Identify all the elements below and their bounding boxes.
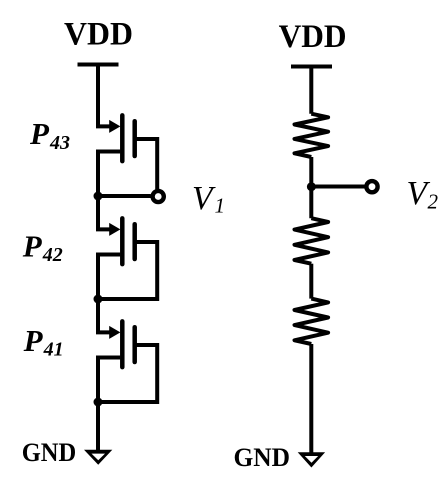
svg-text:VDD: VDD [64, 17, 133, 53]
svg-text:GND: GND [234, 442, 291, 472]
svg-text:43: 43 [49, 132, 70, 154]
svg-text:GND: GND [22, 437, 76, 467]
svg-text:1: 1 [215, 194, 226, 218]
svg-text:V: V [192, 180, 216, 217]
svg-text:41: 41 [43, 339, 64, 361]
svg-text:P: P [23, 323, 44, 358]
svg-text:VDD: VDD [279, 19, 347, 55]
svg-text:42: 42 [42, 244, 63, 266]
svg-text:P: P [22, 228, 43, 263]
svg-text:P: P [29, 116, 50, 151]
svg-text:2: 2 [428, 190, 439, 214]
